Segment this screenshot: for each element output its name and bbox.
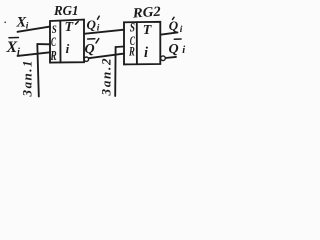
svg-text:i: i	[97, 24, 100, 34]
svg-text:Q: Q	[87, 17, 97, 32]
svg-text:Q: Q	[85, 42, 95, 57]
svg-text:Зап.2: Зап.2	[99, 58, 114, 97]
svg-text:Q: Q	[169, 42, 179, 57]
svg-text:i: i	[66, 41, 70, 56]
svg-text:i: i	[26, 22, 29, 32]
svg-text:RG1: RG1	[53, 4, 78, 19]
svg-text:Q: Q	[169, 18, 179, 33]
svg-text:i: i	[17, 47, 20, 58]
svg-text:Зап.1: Зап.1	[20, 61, 35, 98]
svg-text:T: T	[143, 23, 153, 38]
svg-text:RG2: RG2	[131, 5, 161, 22]
svg-text:T: T	[65, 20, 75, 35]
svg-text:i: i	[182, 45, 185, 56]
svg-text:R: R	[50, 48, 57, 63]
svg-text:C: C	[51, 34, 56, 49]
svg-text:R: R	[128, 43, 135, 58]
svg-text:i: i	[180, 25, 183, 35]
svg-text:i: i	[144, 45, 148, 61]
svg-text:X: X	[6, 39, 18, 56]
